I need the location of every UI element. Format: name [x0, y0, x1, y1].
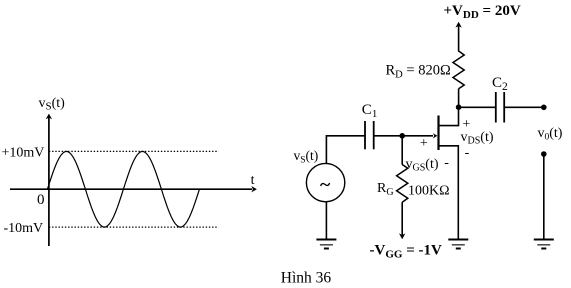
- vertical axis: [46, 114, 52, 246]
- svg-text:-10mV: -10mV: [4, 221, 44, 236]
- svg-text:v0(t): v0(t): [538, 126, 563, 143]
- ground at output: [534, 240, 554, 249]
- ground at source: [448, 240, 468, 249]
- svg-text:+10mV: +10mV: [2, 146, 45, 161]
- signal source VS circle: [306, 163, 344, 201]
- transistor Q1 source lead: [439, 146, 459, 240]
- output terminal node: [541, 105, 547, 111]
- label vGS(t): [406, 157, 439, 174]
- svg-text:0: 0: [37, 192, 45, 208]
- wire gate with arrowhead: [374, 133, 438, 138]
- svg-text:vS(t): vS(t): [39, 96, 66, 113]
- caption Hinh 36: [281, 270, 332, 287]
- wire node to C2: [459, 106, 496, 108]
- label 0: [37, 192, 45, 208]
- transistor Q1 channel bar: [437, 116, 439, 151]
- node gate junction: [399, 133, 405, 139]
- label +10mV: [2, 146, 45, 161]
- wire output to ground: [543, 154, 545, 240]
- label - (vGS minus): [444, 156, 449, 171]
- label -VGG = -1V: [370, 243, 442, 261]
- wire source to C1: [326, 136, 365, 164]
- wire RG to VGG arrow: [399, 202, 405, 239]
- wire RD to drain node: [458, 89, 460, 108]
- wire gate node to RG: [401, 136, 403, 165]
- label + (vGS plus): [420, 136, 428, 151]
- label - (vDS minus): [465, 146, 470, 161]
- label vS(t) source: [294, 148, 319, 166]
- node output lower terminal: [541, 151, 547, 157]
- label C2: [492, 75, 508, 93]
- power VDD arrow: [455, 22, 461, 52]
- label +VDD = 20V: [444, 3, 521, 21]
- label + (vDS plus): [462, 117, 470, 132]
- label C1: [362, 102, 378, 120]
- svg-text:-VGG = -1V: -VGG = -1V: [370, 243, 442, 261]
- resistor RD: [453, 51, 464, 89]
- capacitor C2: [496, 92, 504, 123]
- label 100Kohm: [408, 184, 450, 199]
- svg-text:+: +: [420, 136, 428, 151]
- label -10mV: [4, 221, 44, 236]
- svg-text:t: t: [251, 173, 255, 188]
- sine wave vS(t): [47, 152, 199, 228]
- label v0(t): [538, 126, 563, 143]
- label RD = 820ohm: [386, 63, 451, 81]
- svg-text:+VDD = 20V: +VDD = 20V: [444, 3, 521, 21]
- node drain junction: [456, 104, 462, 110]
- label RG: [377, 181, 394, 198]
- transistor Q1 drain lead: [439, 108, 459, 126]
- wire C2 to output: [504, 106, 544, 108]
- resistor RG: [397, 165, 408, 203]
- svg-text:vS(t): vS(t): [294, 148, 319, 166]
- wire source to ground: [325, 202, 327, 240]
- svg-text:100KΩ: 100KΩ: [408, 184, 450, 199]
- label vS(t) axis: [39, 96, 66, 113]
- dashed level -10mV: [49, 226, 219, 228]
- label vDS(t): [461, 130, 494, 147]
- dashed level +10mV: [49, 150, 219, 152]
- svg-text:-: -: [465, 146, 470, 161]
- ground at source VS: [316, 240, 336, 249]
- horizontal axis t: [10, 186, 257, 192]
- svg-text:-: -: [444, 156, 449, 171]
- label t: [251, 173, 255, 188]
- svg-text:Hình 36: Hình 36: [281, 270, 332, 287]
- capacitor C1: [365, 121, 374, 149]
